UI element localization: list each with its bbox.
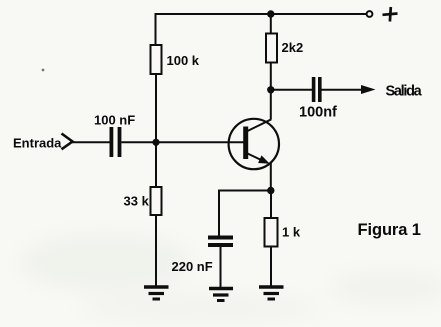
svg-text:100nf: 100nf [299,105,337,121]
svg-text:33 k: 33 k [124,194,150,209]
svg-text:Entrada: Entrada [13,136,62,151]
svg-text:Salida: Salida [386,84,423,100]
svg-text:220 nF: 220 nF [172,259,213,274]
svg-text:Figura 1: Figura 1 [358,221,421,239]
svg-text:100 nF: 100 nF [94,113,135,128]
svg-text:1 k: 1 k [282,225,301,240]
svg-text:2k2: 2k2 [282,40,304,55]
svg-text:100 k: 100 k [167,53,200,68]
